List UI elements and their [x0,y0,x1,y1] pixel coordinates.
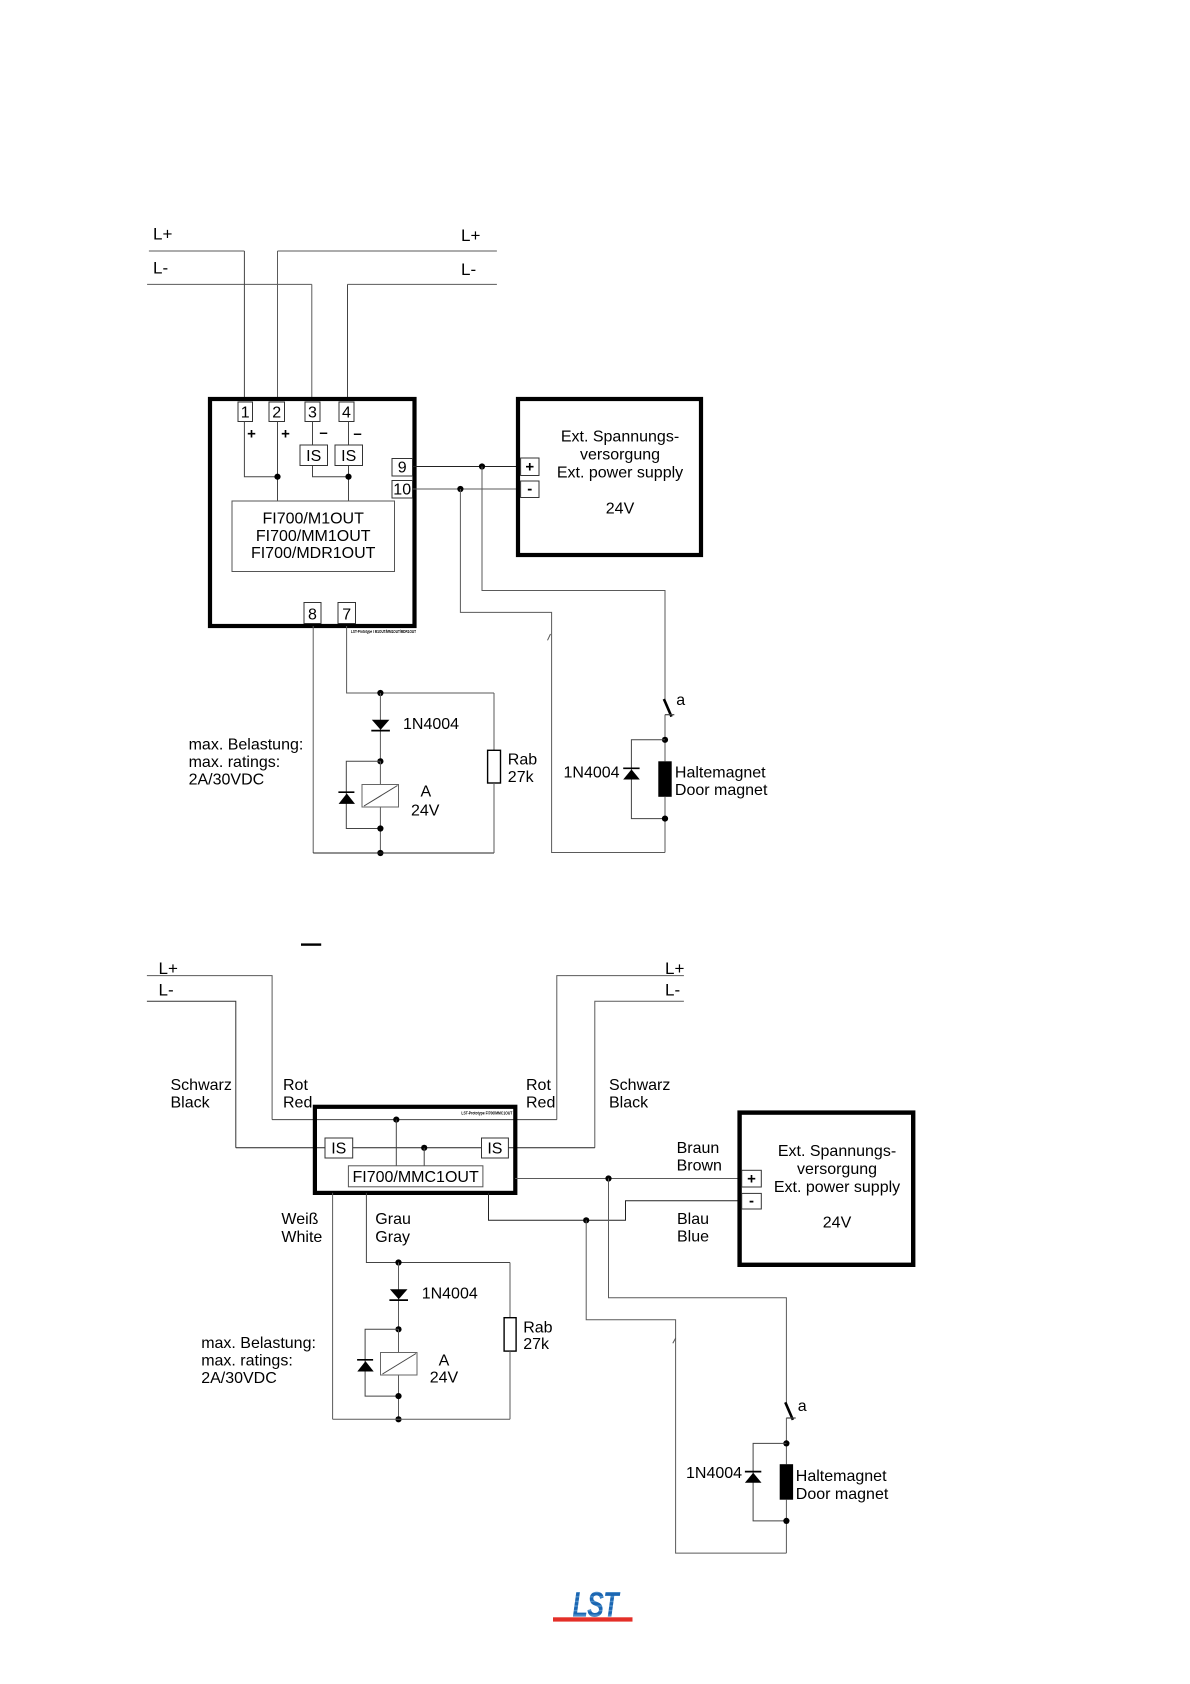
wire supply minus feed (diagram 1) [460,489,665,853]
svg-text:versorgung: versorgung [797,1161,877,1178]
wire relay branch vertical (diagram 2) [398,1263,400,1330]
svg-text:a: a [676,692,685,709]
svg-text:24V: 24V [606,501,635,518]
isolator IS box 1 [300,445,328,466]
wire L- bus left segment [147,283,312,285]
junction dot relay bottom [377,825,383,831]
isolator IS box right (diagram 2) [482,1138,509,1158]
svg-text:7: 7 [342,607,351,624]
wire supply minus feed (diagram 2) [586,1220,786,1553]
svg-text:L-: L- [665,981,680,1000]
junction dot blue wire [583,1217,589,1223]
svg-text:FI700/MDR1OUT: FI700/MDR1OUT [251,545,376,562]
svg-text:max. ratings:: max. ratings: [189,754,281,771]
svg-text:–: – [319,425,327,442]
svg-text:Ext. Spannungs-: Ext. Spannungs- [778,1143,896,1160]
svg-text:27k: 27k [523,1336,550,1353]
resistor Rab 27k (diagram 1) [488,693,501,853]
junction dot on wire 9 [479,463,485,469]
switch a (diagram 1) [664,699,674,717]
svg-text:Rab: Rab [523,1319,552,1336]
supply plus terminal (diagram 2) [742,1170,762,1187]
svg-text:-: - [749,1193,754,1210]
wire magnet bottom (diagram 1) [664,797,666,853]
wire brown: module to supply plus [515,1178,743,1180]
terminal 9 [392,459,413,477]
junction dot terminals 1-2 [274,474,280,480]
wire terminal 4 down to label box [348,422,350,502]
svg-text:a: a [798,1398,807,1415]
svg-text:max. Belastung:: max. Belastung: [201,1335,316,1352]
svg-text:Rot: Rot [526,1077,551,1094]
junction dot relay branch top [377,690,383,696]
wire magnet diode bracket (diagram 1) [631,740,665,819]
svg-text:4: 4 [342,405,351,422]
svg-text:versorgung: versorgung [580,447,660,464]
svg-text:3: 3 [308,405,317,422]
svg-text:Gray: Gray [375,1229,410,1246]
svg-text:FI700/MM1OUT: FI700/MM1OUT [256,528,371,545]
diode D1 1N4004 (series, diagram 1) [371,720,390,731]
junction dot terminals 3-4 [345,474,351,480]
junction dot magnet top (diagram 1) [662,737,668,743]
wire bottom rail (relay circuit 1) [313,852,494,854]
svg-text:L-: L- [159,981,174,1000]
svg-text:max. ratings:: max. ratings: [201,1352,293,1369]
svg-text:Haltemagnet: Haltemagnet [675,765,766,782]
svg-text:Blau: Blau [677,1211,709,1228]
svg-text:IS: IS [331,1141,346,1158]
svg-text:2A/30VDC: 2A/30VDC [201,1370,277,1387]
svg-text:Schwarz: Schwarz [609,1077,670,1094]
svg-text:Ext. power supply: Ext. power supply [774,1179,900,1196]
label max ratings (diagram 1) [189,736,304,788]
relay coil A 24V (diagram 1) [362,785,399,808]
label Schwarz Black left [171,1077,232,1112]
module FI700/MMC1OUT outline [315,1107,515,1193]
svg-text:L-: L- [153,259,168,278]
svg-text:10: 10 [393,482,411,499]
isolator IS box left (diagram 2) [325,1138,353,1158]
svg-text:1N4004: 1N4004 [564,765,620,782]
diode D4 1N4004 (series, diagram 2) [389,1289,408,1300]
diode D6 1N4004 (magnet, diagram 2) [745,1472,762,1483]
junction dot on wire 10 [457,486,463,492]
svg-text:Door magnet: Door magnet [675,782,768,799]
junction dot bottom rail (relay 1) [377,850,383,856]
junction dot brown wire [605,1175,611,1181]
svg-text:A: A [439,1353,450,1370]
resistor Rab 27k (diagram 2) [504,1263,516,1420]
svg-text:LST-Prototype I M1OUT/MM1OUT/M: LST-Prototype I M1OUT/MM1OUT/MDR1OUT [351,629,416,634]
svg-text:-: - [527,481,532,498]
terminal 3 [305,402,320,422]
svg-text:24V: 24V [411,803,440,820]
module label box FI700 [232,501,395,572]
wire freewheel bracket (diagram 2 relay) [365,1329,398,1396]
svg-text:IS: IS [341,448,356,465]
wire terminal 2 down to label box [277,422,279,502]
wire red rail through module (diagram 2) [272,1119,557,1121]
svg-text:Rab: Rab [508,751,537,768]
svg-text:Schwarz: Schwarz [171,1077,232,1094]
module FI700/M1OUT outline [210,399,415,626]
svg-text:2: 2 [272,405,281,422]
svg-text:Red: Red [283,1094,312,1111]
junction dot bottom rail (diagram 2) [395,1416,401,1422]
diode D3 1N4004 (magnet, diagram 1) [623,768,640,779]
wire gray: module down and right (diagram 2) [366,1193,510,1263]
wire L+ bus right segment [278,250,497,252]
junction dot relay top [377,758,383,764]
terminal 2 [269,402,285,422]
wire supply plus to switch (diagram 1) [482,467,665,700]
label Schwarz Black right [609,1077,670,1112]
wire red rail to label box [395,1120,397,1166]
wire terminal 4 riser to L- right [347,284,349,402]
svg-text:Blue: Blue [677,1229,709,1246]
supply plus terminal (diagram 1) [521,458,539,476]
svg-text:Black: Black [609,1094,649,1111]
svg-text:L+: L+ [461,226,480,245]
wire L+ bus left (diagram 2) [147,976,272,1120]
relay coil A 24V (diagram 2) [381,1353,418,1376]
wire L+ bus right (diagram 2) [557,976,684,1120]
separator dash mark [301,943,321,945]
svg-text:IS: IS [306,448,321,465]
label Blau Blue [677,1211,709,1246]
wire supply plus to switch (diagram 2) [609,1179,787,1403]
svg-text:Red: Red [526,1094,555,1111]
wire relay branch vertical upper [379,693,381,761]
wire L+ bus left segment [149,250,245,252]
svg-text:8: 8 [308,607,317,624]
module label box FI700/MMC1OUT [348,1166,483,1187]
svg-text:L+: L+ [153,225,172,244]
external power supply box (diagram 2) [740,1113,914,1265]
wire switch to magnet (diagram 2) [785,1418,787,1464]
svg-text:27k: 27k [508,769,535,786]
label Weiss White [281,1211,322,1246]
label max ratings (diagram 2) [201,1335,316,1387]
LST logo red underline [553,1617,633,1621]
svg-text:Brown: Brown [677,1157,722,1174]
terminal 10 [392,481,413,499]
wire terminal 2 riser to L+ right [277,251,279,402]
svg-text:FI700/MMC1OUT: FI700/MMC1OUT [352,1169,478,1186]
wire terminal 9 to supply plus [413,466,521,468]
label Braun Brown [677,1140,722,1175]
wire magnet bottom (diagram 2) [785,1500,787,1553]
wire switch to magnet (diagram 1) [664,715,666,762]
svg-text:Weiß: Weiß [281,1211,318,1228]
svg-text:Door magnet: Door magnet [796,1486,889,1503]
external power supply box (diagram 1) [518,399,701,555]
svg-text:1N4004: 1N4004 [422,1286,478,1303]
wire relay coil vertical (diagram 2) [398,1329,400,1419]
wire black rail to label box [423,1148,425,1166]
junction dot magnet bottom (diagram 2) [783,1518,789,1524]
wire L+ drop to terminal 1 [243,251,245,402]
wire freewheel bracket (diagram 1 relay) [346,761,380,828]
switch a (diagram 2) [785,1402,795,1420]
svg-text:+: + [747,1171,756,1188]
svg-text:1N4004: 1N4004 [403,716,459,733]
diode D2 freewheel (relay, diagram 1) [338,792,355,804]
junction dot relay branch top (diagram 2) [395,1259,401,1265]
wire L- bus right (diagram 2) [595,1001,684,1148]
wire relay coil vertical [379,761,381,853]
terminal 1 [238,402,253,422]
svg-text:LST-Prototype FI700/MMC1OUT: LST-Prototype FI700/MMC1OUT [461,1111,512,1116]
svg-text:Ext. Spannungs-: Ext. Spannungs- [561,429,679,446]
wire magnet diode bracket (diagram 2) [753,1443,786,1521]
svg-text:A: A [421,784,432,801]
svg-text:+: + [247,426,256,443]
supply minus terminal (diagram 1) [521,481,539,498]
diode D5 freewheel (relay, diagram 2) [357,1360,374,1372]
terminal 4 [339,402,354,422]
wire L- bus left (diagram 2) [147,1001,236,1148]
svg-text:+: + [281,426,290,443]
wire L- drop to terminal 3 [311,284,313,402]
junction dot magnet top (diagram 2) [783,1440,789,1446]
door magnet coil (diagram 2) [780,1464,793,1500]
svg-text:9: 9 [398,460,407,477]
junction dot relay top (diagram 2) [395,1326,401,1332]
junction dot red rail [393,1117,399,1123]
wire terminal 3 down through IS [313,422,349,477]
svg-text:max. Belastung:: max. Belastung: [189,736,304,753]
wire terminal 1 to node below [244,422,277,477]
svg-text:Black: Black [171,1094,211,1111]
supply minus terminal (diagram 2) [742,1193,762,1210]
svg-text:Ext. power supply: Ext. power supply [557,465,683,482]
stray tick mark (diagram 1) [548,634,551,640]
label Rot Red right [526,1077,555,1112]
wire L- bus right segment [348,283,497,285]
wire terminal 8 down [312,626,314,853]
terminal 8 [304,603,321,624]
svg-text:24V: 24V [430,1370,459,1387]
terminal 7 [338,603,356,624]
svg-text:24V: 24V [823,1215,852,1232]
svg-text:IS: IS [487,1141,502,1158]
door magnet coil (diagram 1) [658,761,671,797]
wire bottom rail (relay circuit 2) [333,1418,510,1420]
junction dot black rail [421,1145,427,1151]
svg-text:White: White [281,1229,322,1246]
label Grau Gray [375,1211,411,1246]
svg-text:2A/30VDC: 2A/30VDC [189,771,265,788]
junction dot relay bottom (diagram 2) [395,1393,401,1399]
svg-text:L-: L- [461,260,476,279]
wire blue: module bottom to supply minus [489,1193,744,1220]
svg-text:1N4004: 1N4004 [686,1465,742,1482]
wire black rail through module (diagram 2) [236,1147,595,1149]
svg-text:–: – [353,426,361,443]
svg-text:1: 1 [241,405,250,422]
svg-text:Grau: Grau [375,1211,411,1228]
svg-text:FI700/M1OUT: FI700/M1OUT [263,510,365,527]
wire terminal 10 to supply minus [413,488,521,490]
svg-text:+: + [525,459,534,476]
svg-text:Haltemagnet: Haltemagnet [796,1468,887,1485]
label Rot Red left [283,1077,312,1112]
wire terminal 7 down and right [347,626,494,693]
junction dot magnet bottom (diagram 1) [662,816,668,822]
wire white: module to bottom rail (diagram 2) [332,1193,334,1419]
isolator IS box 2 [335,445,363,466]
svg-text:Rot: Rot [283,1077,308,1094]
stray tick mark (diagram 2) [673,1338,676,1343]
svg-text:Braun: Braun [677,1140,720,1157]
